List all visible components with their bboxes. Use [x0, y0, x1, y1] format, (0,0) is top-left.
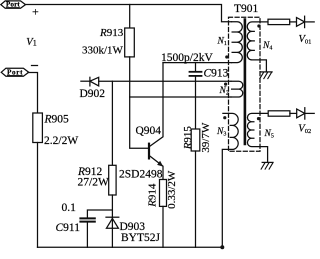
svg-text:Q904: Q904 — [136, 125, 162, 137]
svg-text:R913: R913 — [99, 27, 124, 39]
svg-text:R914: R914 — [146, 183, 158, 208]
svg-text:+: + — [32, 5, 39, 19]
svg-text:330k/1W: 330k/1W — [82, 45, 124, 57]
svg-text:R905: R905 — [44, 114, 70, 126]
svg-text:0.1: 0.1 — [62, 202, 77, 214]
svg-text:R915: R915 — [182, 126, 194, 151]
svg-text:1500p/2kV: 1500p/2kV — [161, 52, 213, 64]
svg-text:T901: T901 — [234, 3, 259, 15]
svg-text:2SD2498: 2SD2498 — [119, 169, 163, 181]
svg-text:2.2/2W: 2.2/2W — [44, 135, 78, 147]
svg-text:0.33/2W: 0.33/2W — [166, 170, 178, 209]
svg-text:C911: C911 — [56, 222, 81, 234]
svg-text:V1: V1 — [26, 37, 36, 48]
svg-text:27/2W: 27/2W — [78, 177, 109, 189]
svg-text:BYT52J: BYT52J — [121, 232, 161, 244]
svg-text:D902: D902 — [80, 88, 106, 100]
svg-text:39/7W: 39/7W — [200, 122, 212, 153]
svg-text:C913: C913 — [204, 68, 229, 80]
